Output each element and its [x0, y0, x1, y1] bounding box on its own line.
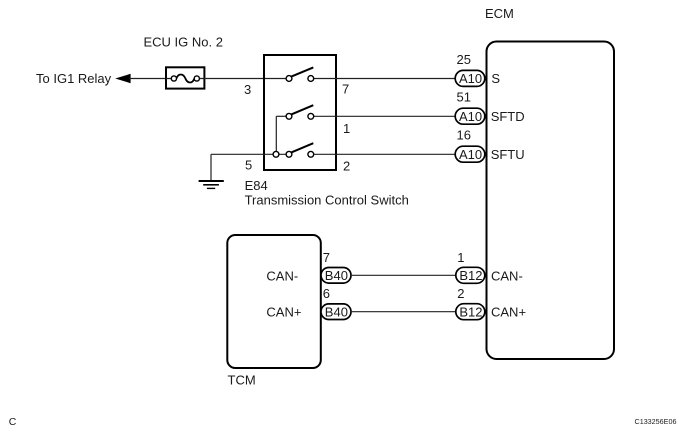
svg-text:B40: B40 — [325, 305, 348, 320]
svg-text:Transmission Control Switch: Transmission Control Switch — [245, 193, 409, 208]
wire arrowhead to fuse — [129, 78, 166, 80]
svg-text:ECM: ECM — [485, 6, 514, 21]
svg-text:B40: B40 — [325, 268, 348, 283]
wire switch pin 2 to ECM A10 SFTU — [336, 153, 455, 155]
svg-text:C: C — [9, 416, 17, 428]
svg-text:E84: E84 — [245, 178, 268, 193]
wire CAN- B40 to B12 — [351, 274, 456, 276]
ECM box — [487, 42, 615, 360]
connector A10 pin 16 — [455, 146, 485, 162]
svg-text:CAN+: CAN+ — [266, 305, 301, 320]
switch contact pins 3-7 — [286, 67, 336, 81]
connector A10 pin 51 — [455, 108, 485, 124]
connector B12 pin 1 — [456, 267, 485, 283]
svg-text:A10: A10 — [459, 71, 482, 86]
svg-text:CAN-: CAN- — [266, 268, 298, 283]
connector B40 pin 6 — [321, 304, 351, 320]
svg-text:7: 7 — [323, 250, 330, 265]
svg-text:16: 16 — [457, 128, 471, 143]
svg-text:SFTU: SFTU — [491, 147, 525, 162]
svg-text:To IG1 Relay: To IG1 Relay — [36, 71, 112, 86]
svg-text:A10: A10 — [459, 147, 482, 162]
fuse ECU IG No. 2 — [166, 67, 204, 88]
TCM box — [227, 235, 320, 368]
svg-text:51: 51 — [457, 90, 471, 105]
ground — [199, 181, 224, 188]
svg-text:CAN-: CAN- — [491, 268, 523, 283]
svg-text:1: 1 — [343, 121, 350, 136]
svg-text:6: 6 — [323, 286, 330, 301]
svg-text:2: 2 — [457, 286, 464, 301]
svg-text:ECU IG No. 2: ECU IG No. 2 — [144, 34, 223, 49]
svg-text:TCM: TCM — [228, 373, 256, 388]
svg-text:2: 2 — [343, 159, 350, 174]
arrowhead to IG1 Relay — [115, 74, 130, 83]
svg-text:5: 5 — [245, 158, 252, 173]
svg-text:B12: B12 — [459, 268, 482, 283]
connector B12 pin 2 — [456, 304, 485, 320]
wire CAN+ B40 to B12 — [351, 311, 456, 313]
svg-text:S: S — [491, 71, 500, 86]
svg-text:CAN+: CAN+ — [491, 305, 526, 320]
svg-text:1: 1 — [457, 250, 464, 265]
svg-text:25: 25 — [457, 52, 471, 67]
switch contact pins 5-2 — [211, 143, 336, 157]
switch box E84 — [264, 55, 336, 170]
connector A10 pin 25 — [455, 70, 485, 86]
wire switch pin 5 to ground — [210, 154, 212, 180]
wire fuse to switch pin 3 — [204, 78, 286, 80]
svg-text:7: 7 — [342, 82, 349, 97]
svg-text:A10: A10 — [459, 109, 482, 124]
svg-text:B12: B12 — [459, 305, 482, 320]
wire switch pin 7 to ECM A10 S — [336, 78, 455, 80]
svg-text:SFTD: SFTD — [491, 109, 525, 124]
wire switch pin 1 to ECM A10 SFTD — [336, 115, 455, 117]
connector B40 pin 7 — [321, 268, 351, 284]
switch contact pin 1 — [276, 105, 336, 154]
svg-text:C133256E06: C133256E06 — [635, 417, 677, 426]
svg-text:3: 3 — [244, 82, 251, 97]
